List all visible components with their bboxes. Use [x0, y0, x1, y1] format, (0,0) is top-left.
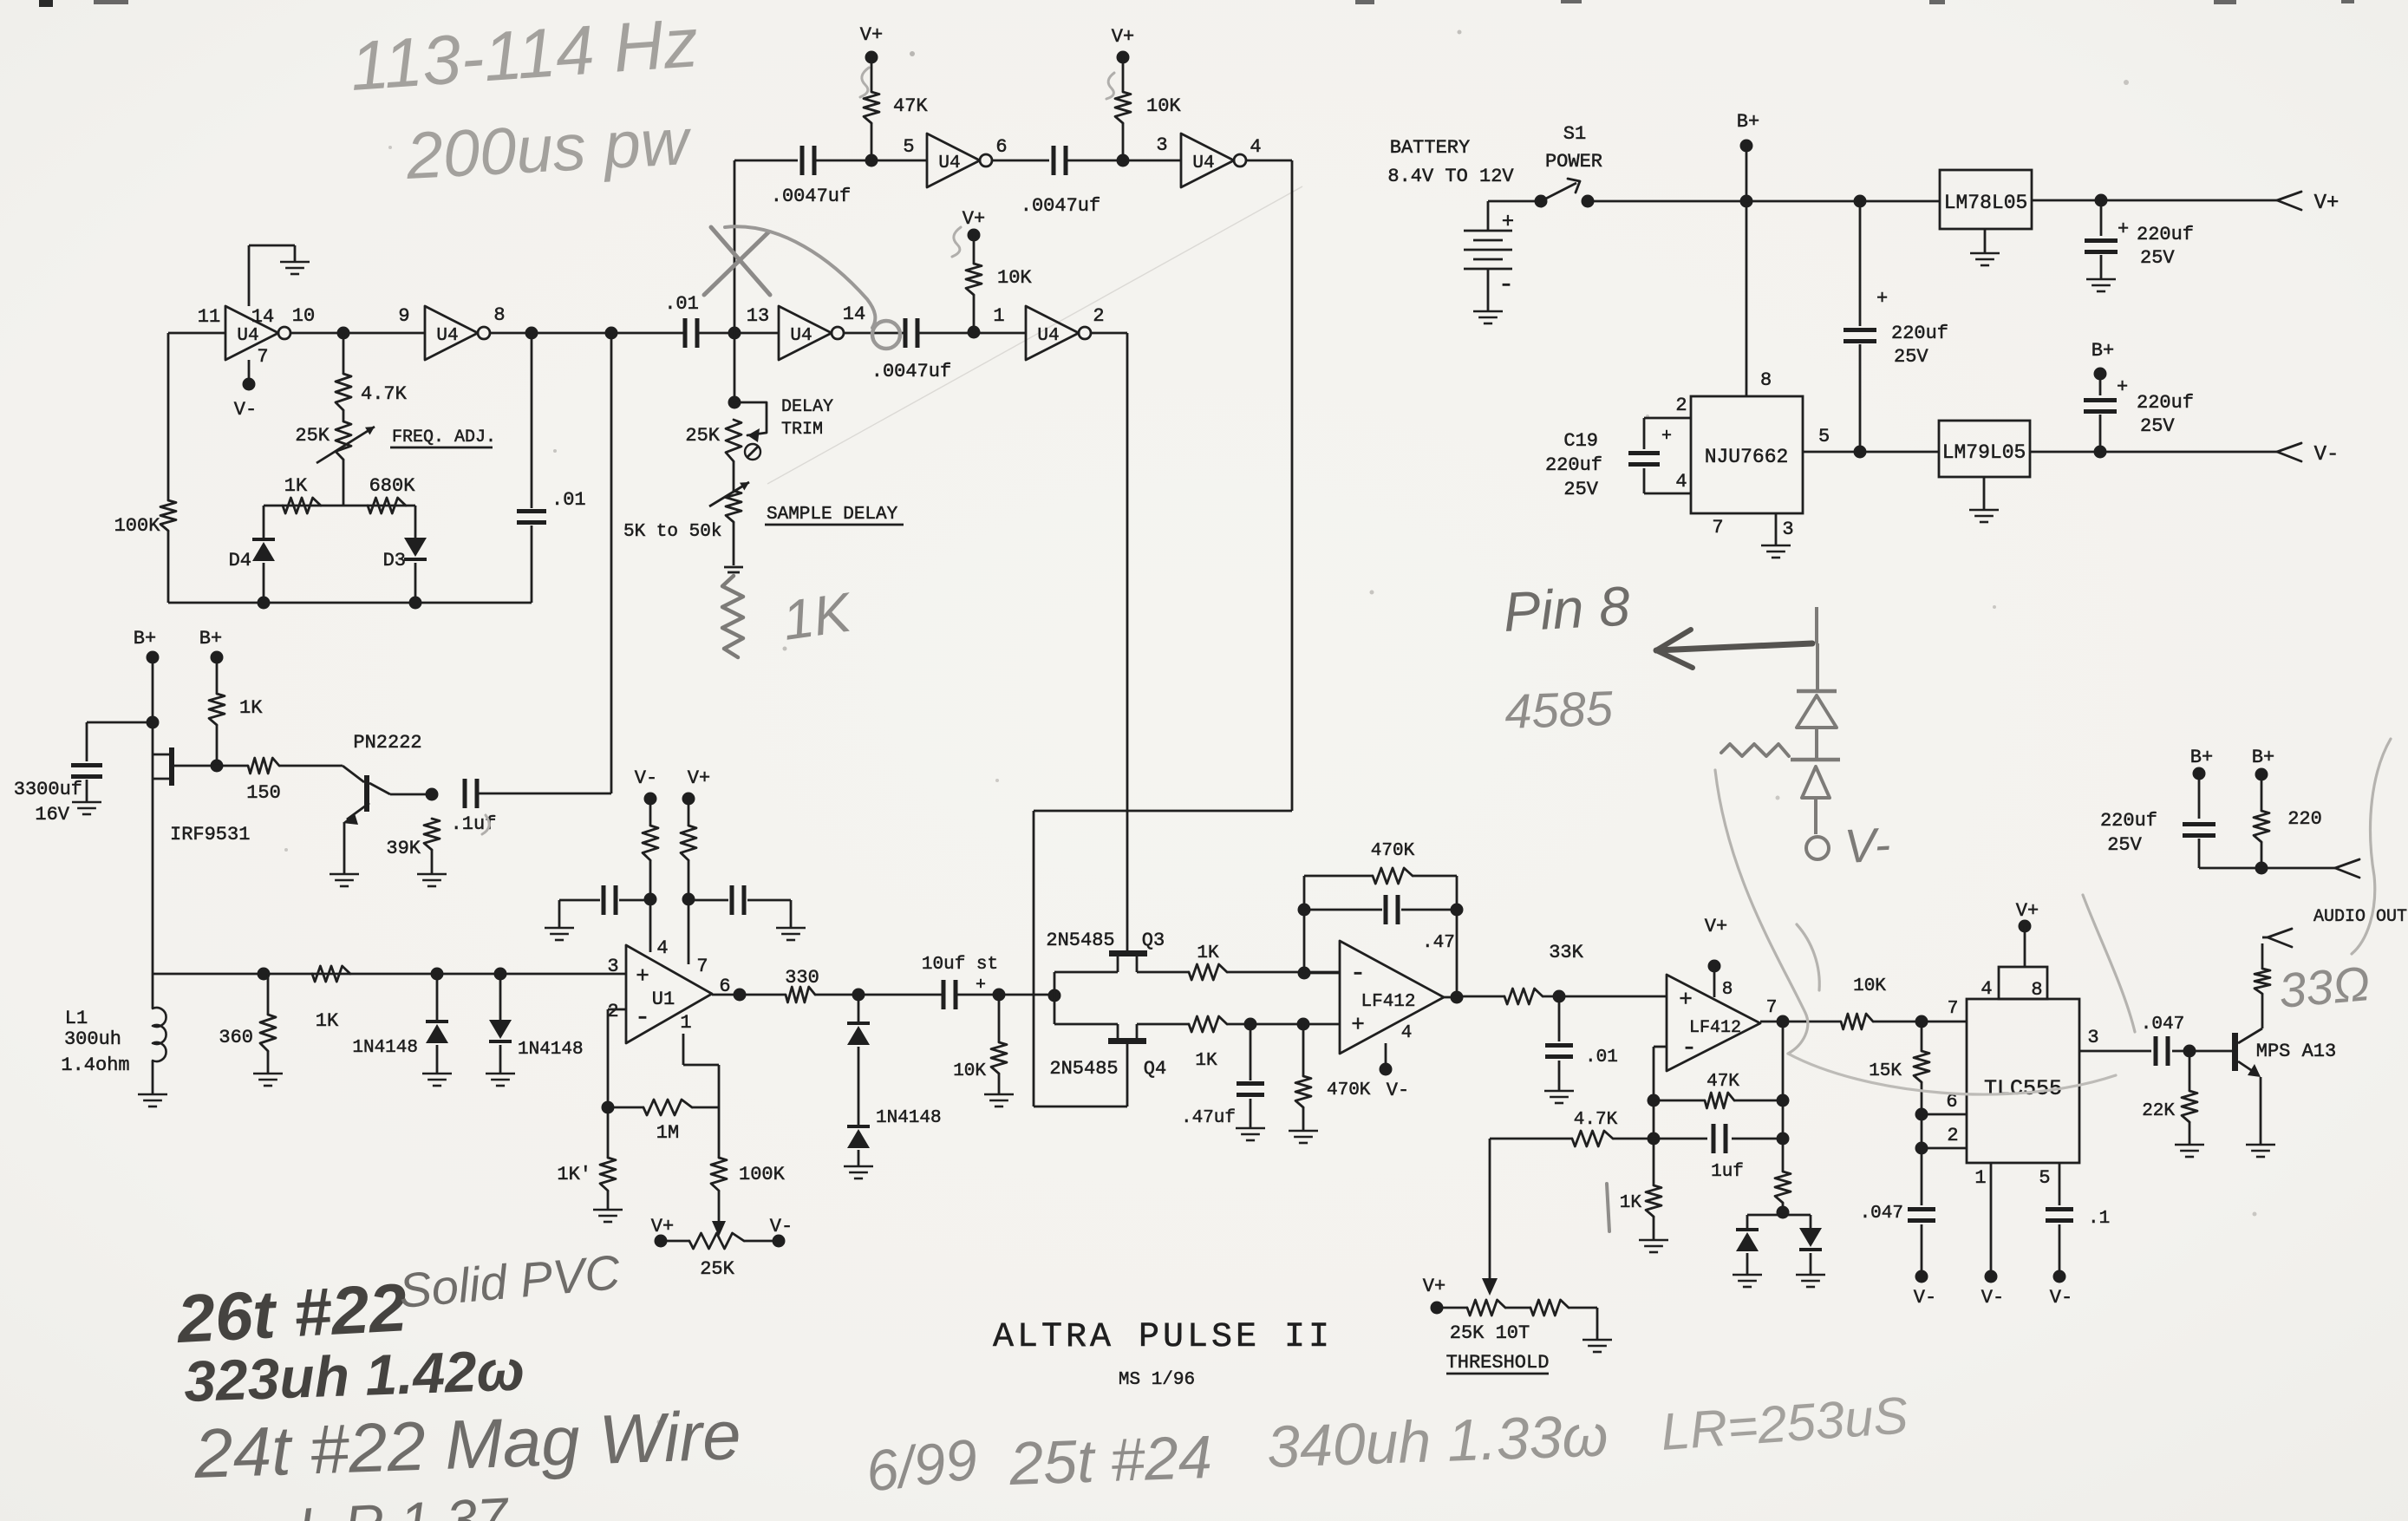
- svg-text:47K: 47K: [1706, 1072, 1739, 1092]
- svg-text:LF412: LF412: [1689, 1018, 1741, 1038]
- svg-text:16V: 16V: [35, 804, 69, 826]
- svg-text:NJU7662: NJU7662: [1705, 446, 1789, 468]
- svg-text:11: 11: [198, 306, 220, 328]
- svg-text:.1: .1: [2088, 1209, 2110, 1229]
- svg-text:1: 1: [680, 1012, 691, 1034]
- svg-text:680K: 680K: [369, 475, 416, 497]
- svg-text:2N5485: 2N5485: [1049, 1058, 1118, 1080]
- svg-text:6/99: 6/99: [863, 1426, 982, 1504]
- svg-text:V+: V+: [1112, 26, 1134, 48]
- svg-text:10K: 10K: [997, 267, 1032, 289]
- svg-text:LM78L05: LM78L05: [1944, 192, 2028, 214]
- svg-text:DELAY: DELAY: [781, 397, 833, 417]
- svg-text:.047: .047: [1860, 1204, 1903, 1224]
- svg-text:.01: .01: [1585, 1048, 1618, 1067]
- svg-text:10K: 10K: [1146, 95, 1181, 117]
- svg-text:V-: V-: [635, 767, 657, 789]
- svg-text:33Ω: 33Ω: [2277, 956, 2372, 1018]
- svg-text:10K: 10K: [1853, 976, 1886, 996]
- svg-text:1.4ohm: 1.4ohm: [61, 1054, 129, 1076]
- svg-text:4: 4: [1675, 471, 1687, 493]
- svg-text:V+: V+: [688, 767, 710, 789]
- svg-text:22K: 22K: [2142, 1101, 2175, 1121]
- svg-text:Pin 8: Pin 8: [1502, 574, 1632, 643]
- svg-text:U4: U4: [938, 153, 960, 173]
- svg-text:1: 1: [993, 305, 1004, 327]
- svg-text:2: 2: [1947, 1125, 1958, 1146]
- svg-text:7: 7: [257, 346, 268, 368]
- svg-text:25V: 25V: [1894, 346, 1928, 368]
- svg-text:25K: 25K: [685, 425, 720, 447]
- svg-text:+: +: [2117, 376, 2128, 398]
- svg-text:330: 330: [785, 967, 819, 989]
- svg-text:-: -: [635, 1003, 650, 1033]
- svg-text:1K: 1K: [239, 697, 263, 719]
- svg-text:220uf: 220uf: [2137, 224, 2194, 245]
- svg-text:B+: B+: [2190, 747, 2213, 768]
- svg-text:4: 4: [1401, 1023, 1413, 1043]
- svg-text:9: 9: [398, 305, 409, 327]
- svg-text:AUDIO OUT: AUDIO OUT: [2313, 907, 2407, 927]
- svg-text:1uf: 1uf: [1711, 1162, 1744, 1182]
- svg-text:25K 10T: 25K 10T: [1450, 1322, 1530, 1344]
- svg-text:LF412: LF412: [1361, 992, 1415, 1012]
- svg-text:1M: 1M: [656, 1122, 679, 1144]
- svg-text:5: 5: [1818, 426, 1830, 447]
- svg-text:S1: S1: [1563, 123, 1586, 145]
- svg-text:13: 13: [747, 305, 769, 327]
- svg-text:200us pw: 200us pw: [403, 105, 693, 193]
- svg-text:100K: 100K: [739, 1164, 786, 1185]
- svg-text:THRESHOLD: THRESHOLD: [1446, 1352, 1550, 1374]
- svg-text:.0047uf: .0047uf: [871, 361, 951, 382]
- svg-text:220uf: 220uf: [2100, 810, 2157, 832]
- svg-text:U4: U4: [436, 326, 458, 346]
- svg-text:U4: U4: [790, 326, 812, 346]
- svg-text:.01: .01: [551, 489, 586, 511]
- svg-text:+: +: [1679, 987, 1693, 1013]
- svg-text:25V: 25V: [1563, 479, 1598, 500]
- svg-text:25K: 25K: [700, 1258, 734, 1280]
- svg-text:V+: V+: [651, 1216, 674, 1237]
- svg-text:+: +: [2118, 219, 2129, 240]
- svg-text:5K to 50k: 5K to 50k: [623, 522, 721, 542]
- svg-text:220: 220: [2287, 808, 2322, 830]
- svg-text:B+: B+: [134, 628, 156, 650]
- svg-text:.0047uf: .0047uf: [771, 186, 851, 207]
- svg-text:300uh: 300uh: [64, 1028, 121, 1050]
- svg-text:33K: 33K: [1549, 942, 1583, 963]
- svg-text:220uf: 220uf: [1891, 323, 1948, 344]
- svg-text:7: 7: [1766, 998, 1778, 1018]
- svg-text:1K: 1K: [284, 475, 308, 497]
- svg-text:4: 4: [1981, 978, 1992, 1000]
- svg-text:10: 10: [292, 305, 315, 327]
- svg-text:+: +: [976, 976, 986, 996]
- svg-text:PN2222: PN2222: [353, 732, 421, 754]
- svg-text:V+: V+: [860, 24, 883, 46]
- svg-text:V-: V-: [1843, 817, 1891, 873]
- svg-text:360: 360: [219, 1027, 253, 1048]
- svg-text:7: 7: [696, 956, 708, 977]
- svg-text:BATTERY: BATTERY: [1390, 137, 1470, 159]
- svg-text:.01: .01: [664, 293, 699, 315]
- svg-text:+: +: [1661, 427, 1672, 447]
- svg-text:470K: 470K: [1371, 841, 1415, 861]
- svg-text:3: 3: [1156, 134, 1167, 156]
- svg-text:39K: 39K: [386, 838, 421, 859]
- svg-text:1K: 1K: [779, 580, 858, 652]
- svg-text:25t #24: 25t #24: [1008, 1423, 1213, 1498]
- svg-text:150: 150: [246, 782, 281, 804]
- svg-text:1K': 1K': [557, 1164, 591, 1185]
- svg-text:+: +: [636, 963, 649, 989]
- svg-text:100K: 100K: [114, 515, 161, 537]
- svg-text:8: 8: [1760, 369, 1772, 391]
- svg-text:Q4: Q4: [1144, 1058, 1166, 1080]
- svg-text:25V: 25V: [2140, 415, 2175, 437]
- svg-text:8.4V TO 12V: 8.4V TO 12V: [1387, 166, 1514, 187]
- svg-text:L1: L1: [65, 1008, 88, 1029]
- svg-text:V+: V+: [2016, 900, 2039, 922]
- svg-text:14: 14: [843, 304, 865, 325]
- svg-text:D3: D3: [383, 550, 406, 571]
- svg-text:25V: 25V: [2140, 247, 2175, 269]
- svg-text:D4: D4: [229, 550, 251, 571]
- svg-text:5: 5: [903, 136, 914, 158]
- svg-text:2: 2: [1675, 395, 1687, 416]
- svg-text:B+: B+: [2092, 340, 2114, 362]
- svg-text:3300uf: 3300uf: [14, 779, 82, 800]
- svg-text:+: +: [1502, 211, 1514, 234]
- svg-text:10uf st: 10uf st: [922, 955, 998, 975]
- svg-text:+: +: [1351, 1012, 1365, 1038]
- svg-text:V-: V-: [770, 1216, 793, 1237]
- svg-text:U4: U4: [1037, 326, 1059, 346]
- svg-text:14: 14: [251, 306, 274, 328]
- svg-text:B+: B+: [1737, 111, 1759, 133]
- svg-text:B+: B+: [199, 628, 222, 650]
- svg-text:3: 3: [1782, 519, 1793, 540]
- svg-text:SAMPLE DELAY: SAMPLE DELAY: [767, 505, 898, 525]
- svg-text:6: 6: [995, 136, 1007, 158]
- svg-text:1K: 1K: [1620, 1193, 1642, 1213]
- svg-text:FREQ. ADJ.: FREQ. ADJ.: [392, 428, 496, 447]
- svg-text:10K: 10K: [953, 1061, 986, 1081]
- svg-text:220uf: 220uf: [2137, 392, 2194, 414]
- svg-text:.47: .47: [1422, 933, 1455, 953]
- svg-text:-: -: [1681, 1034, 1697, 1063]
- svg-text:V-: V-: [2050, 1287, 2072, 1309]
- svg-text:2N5485: 2N5485: [1046, 930, 1114, 951]
- svg-text:MS 1/96: MS 1/96: [1119, 1370, 1195, 1390]
- svg-text:15K: 15K: [1869, 1061, 1902, 1081]
- svg-text:V+: V+: [963, 208, 985, 230]
- svg-text:3: 3: [2087, 1027, 2098, 1048]
- svg-text:MPS A13: MPS A13: [2256, 1041, 2336, 1062]
- svg-text:V-: V-: [234, 399, 257, 421]
- svg-text:POWER: POWER: [1545, 151, 1602, 173]
- svg-text:V+: V+: [1705, 916, 1727, 937]
- svg-text:V-: V-: [2314, 443, 2339, 467]
- svg-text:IRF9531: IRF9531: [170, 824, 250, 845]
- svg-text:-: -: [1498, 271, 1514, 300]
- svg-text:1N4148: 1N4148: [352, 1038, 418, 1058]
- svg-text:V-: V-: [1387, 1080, 1409, 1101]
- svg-text:2: 2: [1093, 305, 1104, 327]
- svg-text:.047: .047: [2141, 1015, 2184, 1035]
- svg-text:1K: 1K: [1195, 1051, 1217, 1071]
- svg-text:47K: 47K: [893, 95, 928, 117]
- svg-text:8: 8: [2031, 979, 2042, 1001]
- svg-text:5: 5: [2039, 1167, 2050, 1189]
- svg-text:U4: U4: [237, 326, 258, 346]
- svg-text:B+: B+: [2252, 747, 2274, 768]
- svg-text:7: 7: [1948, 999, 1959, 1019]
- svg-text:3: 3: [607, 956, 618, 977]
- svg-text:220uf: 220uf: [1545, 454, 1602, 476]
- svg-text:25K: 25K: [295, 425, 330, 447]
- svg-text:-: -: [1350, 959, 1366, 989]
- svg-text:.0047uf: .0047uf: [1021, 195, 1100, 217]
- svg-text:V+: V+: [2314, 192, 2339, 215]
- svg-text:8: 8: [1722, 980, 1733, 1000]
- svg-text:8: 8: [493, 304, 505, 326]
- svg-text:LM79L05: LM79L05: [1942, 441, 2026, 464]
- svg-text:4.7K: 4.7K: [1574, 1110, 1618, 1130]
- svg-text:1N4148: 1N4148: [518, 1040, 584, 1060]
- svg-text:470K: 470K: [1327, 1080, 1371, 1100]
- svg-text:25V: 25V: [2107, 834, 2142, 856]
- svg-text:4585: 4585: [1504, 681, 1615, 739]
- svg-text:7: 7: [1712, 517, 1723, 539]
- svg-text:V+: V+: [1423, 1276, 1445, 1297]
- svg-text:4.7K: 4.7K: [361, 383, 408, 405]
- svg-text:340uh 1.33ω: 340uh 1.33ω: [1266, 1402, 1609, 1480]
- svg-text:4: 4: [1250, 136, 1261, 158]
- svg-text:1: 1: [1974, 1167, 1986, 1189]
- svg-text:1K: 1K: [1197, 943, 1219, 963]
- svg-text:ALTRA PULSE II: ALTRA PULSE II: [993, 1318, 1333, 1357]
- svg-text:TRIM: TRIM: [781, 420, 823, 440]
- svg-text:C19: C19: [1563, 430, 1598, 452]
- svg-text:+: +: [1876, 288, 1888, 310]
- svg-text:U4: U4: [1192, 153, 1214, 173]
- svg-text:V-: V-: [1914, 1287, 1936, 1309]
- svg-text:4: 4: [656, 937, 668, 959]
- svg-text:323uh 1.42ω: 323uh 1.42ω: [183, 1337, 525, 1413]
- svg-text:1K: 1K: [316, 1010, 339, 1032]
- svg-text:U1: U1: [652, 989, 675, 1010]
- svg-text:V-: V-: [1981, 1287, 2004, 1309]
- svg-text:.47uf: .47uf: [1181, 1108, 1236, 1128]
- svg-text:1N4148: 1N4148: [876, 1108, 942, 1128]
- svg-text:Q3: Q3: [1142, 930, 1165, 951]
